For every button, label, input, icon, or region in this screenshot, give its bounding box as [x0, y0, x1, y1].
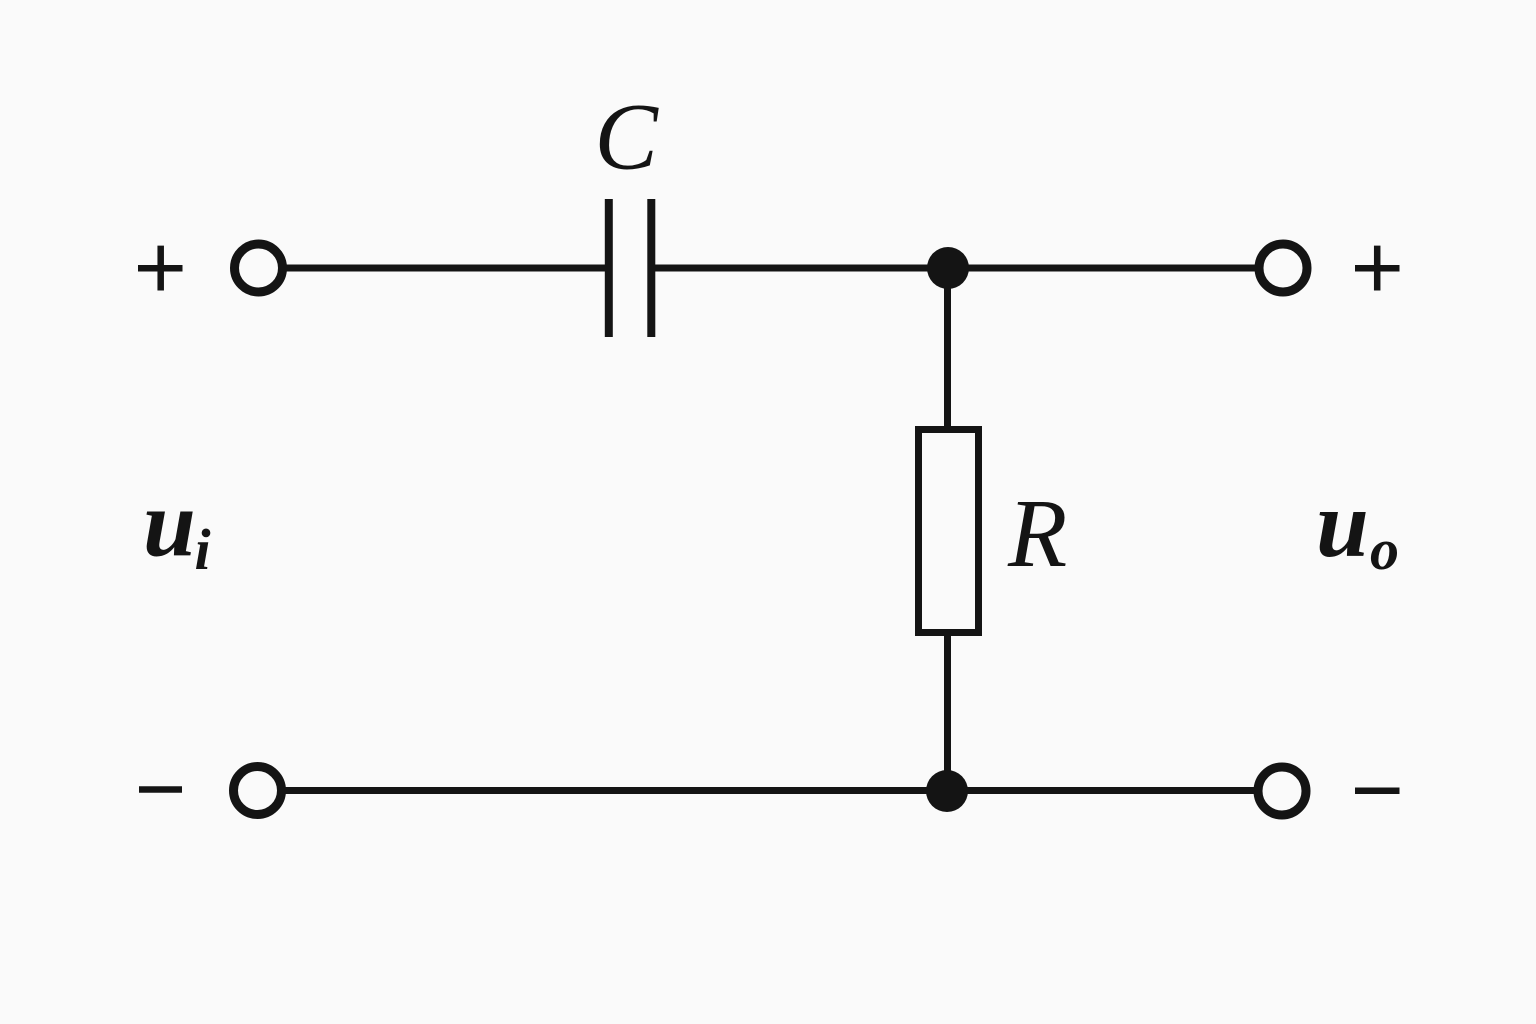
svg-text:i: i [195, 517, 211, 582]
svg-text:o: o [1370, 517, 1399, 582]
svg-text:R: R [1007, 480, 1067, 587]
svg-text:C: C [595, 84, 660, 190]
svg-text:u: u [143, 471, 196, 577]
svg-text:u: u [1316, 471, 1369, 577]
